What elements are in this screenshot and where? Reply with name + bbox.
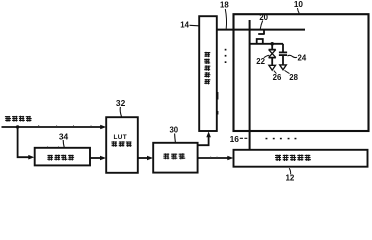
row line stubs on panel edge [233, 44, 235, 62]
svg-text:18: 18 [220, 1, 229, 10]
wire frame memory to LUT memory [90, 156, 106, 161]
svg-text:22: 22 [256, 57, 265, 66]
tone data label (color tone data) [5, 116, 32, 122]
label 20 [259, 13, 268, 29]
label 22 [256, 55, 269, 66]
label 24 [288, 53, 307, 62]
label 26 [273, 71, 282, 82]
wire node to capacitor 24 [282, 44, 284, 52]
svg-text:20: 20 [259, 13, 268, 22]
column ellipsis dots [266, 138, 297, 140]
svg-text:26: 26 [273, 73, 282, 82]
wire controller to data driver [198, 156, 234, 161]
label 28 [285, 70, 299, 81]
junction node on input wire [16, 125, 19, 128]
TFT channel staple [257, 39, 263, 44]
svg-text:14: 14 [180, 21, 189, 30]
svg-text:32: 32 [116, 98, 126, 108]
label 16 [230, 134, 248, 144]
controller text [163, 153, 185, 159]
TFT transistor Q 20: gate stub [263, 30, 265, 34]
data column line (net 16) [249, 20, 251, 150]
scan row line (net 18) [217, 29, 305, 31]
frame memory text [47, 155, 74, 161]
svg-text:34: 34 [59, 131, 69, 141]
wire node to device 22 [271, 44, 273, 50]
scan speckles [38, 125, 218, 157]
electrode arrow 28 [280, 65, 287, 70]
row ellipsis dots [225, 49, 227, 63]
svg-text:16: 16 [230, 134, 240, 144]
data driver text [275, 154, 311, 161]
wire capacitor to electrode arrow 28 [282, 55, 284, 65]
frame memory box 34 [35, 148, 90, 166]
label 30 [169, 126, 178, 143]
svg-text:12: 12 [285, 174, 294, 182]
controller box 30 [153, 143, 197, 173]
tone data input wire [2, 125, 107, 130]
electrode arrow 26 [269, 65, 276, 70]
capacitor C 24 plates [279, 52, 287, 55]
svg-text:28: 28 [289, 73, 298, 82]
pixel node junction [270, 42, 274, 46]
scan driver box 14 [199, 16, 217, 131]
svg-text:10: 10 [294, 0, 304, 9]
display panel box 10 [234, 14, 369, 131]
bidirectional diode 22 (hourglass) [269, 50, 276, 58]
svg-text:30: 30 [169, 126, 178, 135]
wire device 22 to electrode arrow 26 [271, 58, 273, 66]
scan driver vertical text [204, 52, 210, 85]
TFT gate bar [258, 33, 265, 35]
data driver box 12 [234, 150, 368, 167]
svg-text:LUT: LUT [113, 134, 127, 141]
TFT source/drain wire [250, 43, 283, 45]
svg-text:24: 24 [298, 53, 307, 62]
label 10 [294, 0, 304, 13]
label 14 [180, 21, 199, 30]
label 12 [285, 168, 294, 182]
label 34 [59, 131, 69, 147]
scan driver output stubs [217, 92, 219, 115]
LUT text [111, 134, 131, 147]
wire controller to scan driver [198, 132, 211, 146]
label 32 [116, 98, 126, 116]
LUT memory box 32 [106, 117, 138, 173]
label 18 [220, 1, 229, 29]
wire LUT memory to controller [138, 156, 153, 161]
wire branch to frame memory [18, 127, 35, 160]
